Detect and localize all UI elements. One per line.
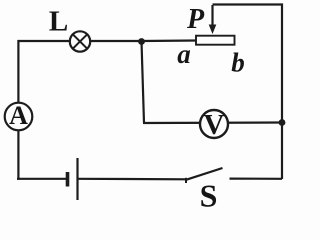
node (junction dot at top) — [138, 38, 145, 45]
wire right vertical (slider top to bottom-right) — [213, 5, 283, 180]
node (junction dot right, voltmeter to right rail) — [279, 119, 286, 126]
wire node down to voltmeter branch — [142, 42, 145, 124]
voltmeter V — [200, 109, 228, 141]
svg-text:A: A — [9, 101, 28, 130]
svg-text:P: P — [186, 4, 205, 35]
wire node to rheostat terminal a — [142, 39, 198, 42]
wire bottom-right rail (switch to right corner) — [230, 178, 283, 180]
wire voltmeter branch horizontal — [143, 121, 282, 124]
svg-text:a: a — [177, 39, 191, 69]
lamp L — [70, 31, 90, 51]
wire bottom-left rail (to battery) — [17, 178, 66, 180]
battery cell: short thick negative plate — [66, 172, 70, 187]
ammeter A — [5, 101, 33, 130]
svg-text:S: S — [200, 178, 218, 211]
svg-text:b: b — [231, 47, 245, 77]
wire left vertical lower (ammeter to bottom rail) — [17, 123, 19, 180]
wire top-left horizontal (battery+ to lamp to node) — [18, 41, 141, 123]
wire bottom-middle rail (battery to switch) — [79, 178, 187, 181]
svg-text:L: L — [49, 6, 68, 38]
svg-text:V: V — [204, 109, 225, 141]
rheostat slider arrow — [209, 5, 217, 34]
battery cell: long thin positive plate — [76, 158, 78, 200]
switch S — [186, 168, 223, 183]
rheostat P body — [196, 36, 235, 45]
